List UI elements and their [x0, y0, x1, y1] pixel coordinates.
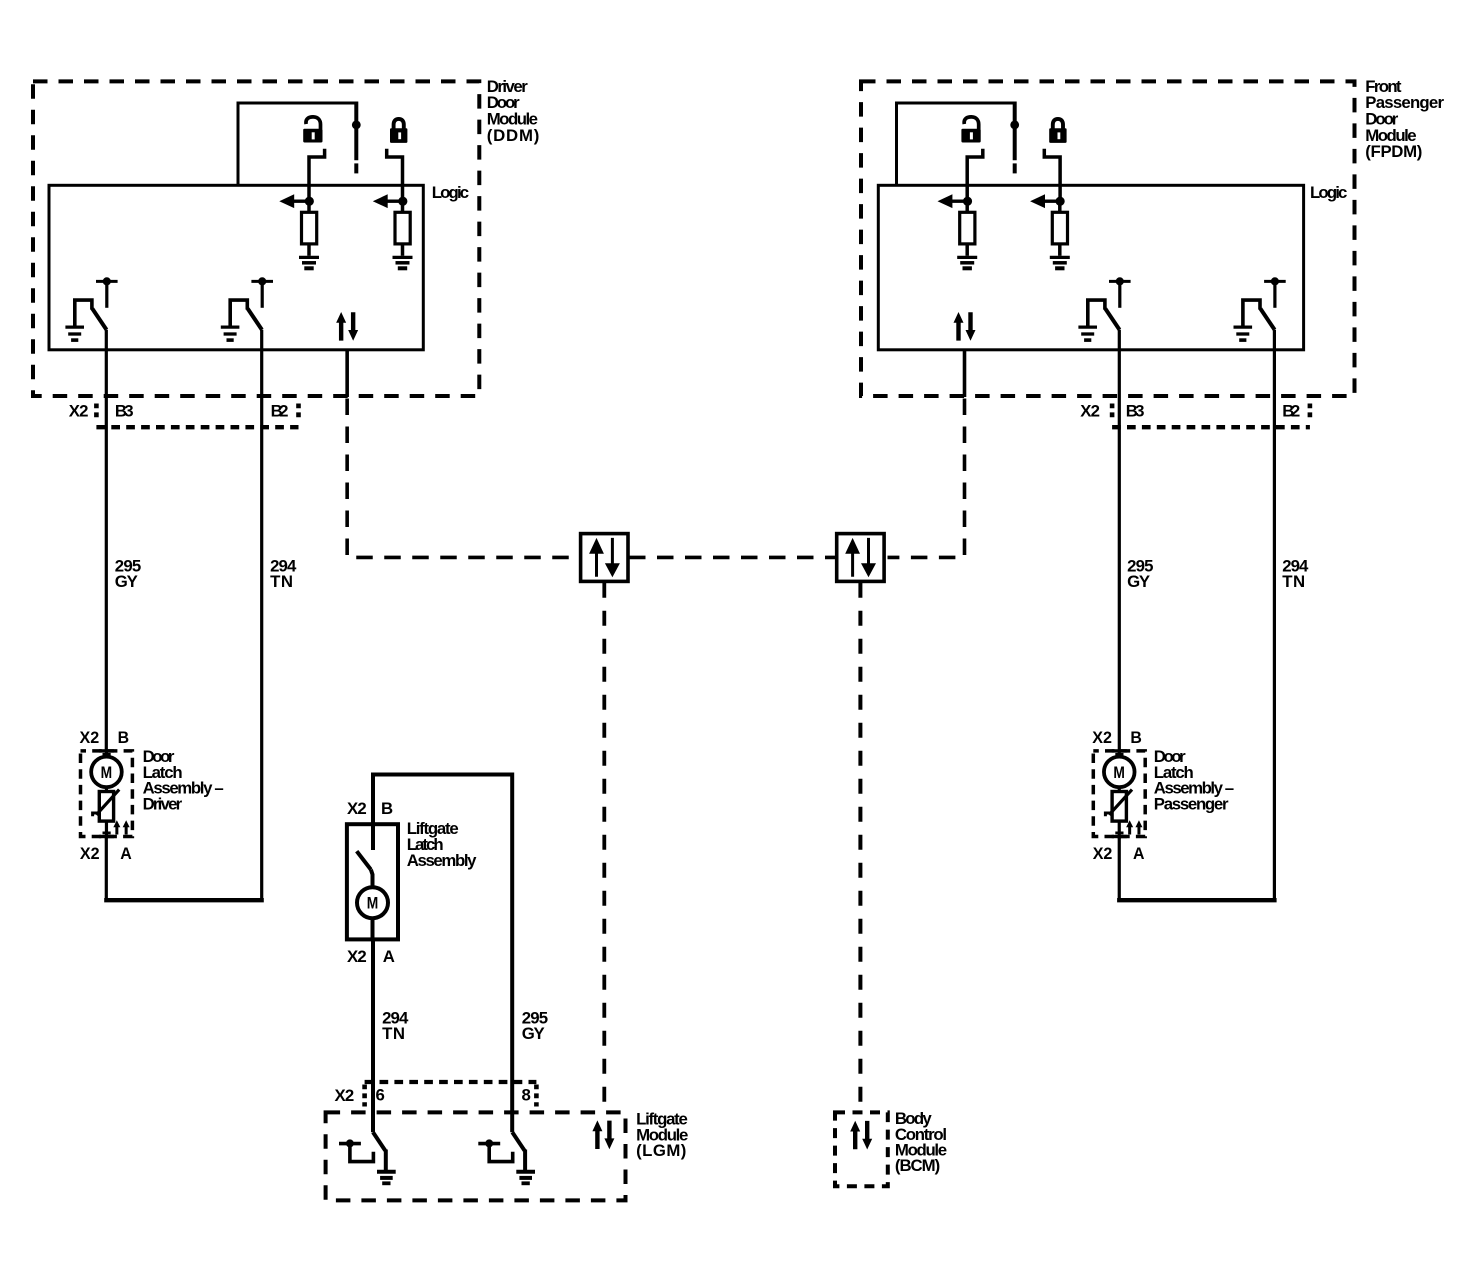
svg-text:(LGM): (LGM) — [636, 1141, 686, 1160]
svg-text:Passenger: Passenger — [1154, 794, 1229, 813]
svg-text:A: A — [383, 947, 395, 966]
svg-text:B3: B3 — [1126, 402, 1145, 421]
svg-text:Driver: Driver — [143, 794, 183, 813]
svg-text:B3: B3 — [115, 402, 134, 421]
svg-text:Logic: Logic — [432, 183, 469, 202]
svg-text:(DDM): (DDM) — [487, 126, 540, 145]
svg-text:M: M — [367, 894, 379, 913]
svg-text:GY: GY — [1127, 572, 1150, 591]
svg-text:Assembly: Assembly — [407, 851, 477, 870]
svg-text:GY: GY — [115, 572, 138, 591]
svg-text:X2: X2 — [1080, 402, 1100, 421]
svg-text:(BCM): (BCM) — [895, 1156, 940, 1175]
svg-text:8: 8 — [522, 1086, 531, 1105]
svg-text:TN: TN — [270, 572, 293, 591]
svg-text:B2: B2 — [1282, 402, 1300, 421]
svg-text:B2: B2 — [271, 402, 289, 421]
svg-text:Logic: Logic — [1310, 183, 1347, 202]
svg-text:X2: X2 — [347, 799, 367, 818]
svg-text:TN: TN — [1282, 572, 1305, 591]
svg-text:GY: GY — [522, 1024, 545, 1043]
svg-text:B: B — [381, 799, 393, 818]
svg-text:6: 6 — [376, 1086, 385, 1105]
svg-text:X2: X2 — [347, 947, 367, 966]
svg-text:X2: X2 — [335, 1086, 355, 1105]
svg-text:TN: TN — [382, 1024, 405, 1043]
svg-text:(FPDM): (FPDM) — [1365, 142, 1422, 161]
svg-text:X2: X2 — [69, 402, 89, 421]
